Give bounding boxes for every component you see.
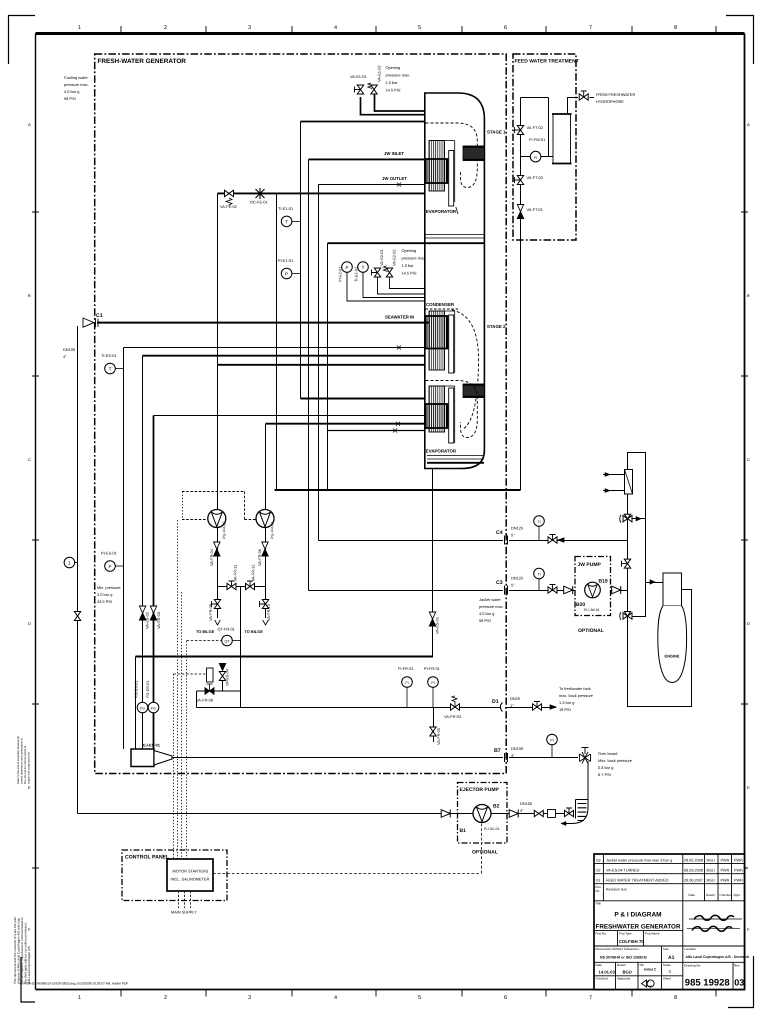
valve VA-FT-02: [515, 126, 524, 135]
svg-text:1: 1: [78, 995, 81, 1001]
wire feed treatment drop: [520, 98, 522, 491]
stage 2 vapour space dashed outline: [426, 381, 478, 438]
instrument TI C4: [534, 516, 545, 540]
svg-text:COLFISH 70: COLFISH 70: [619, 939, 644, 944]
valve VA-FR-11: [227, 581, 236, 590]
svg-text:FG: FG: [140, 707, 145, 711]
relief valve VA-E1-02: [368, 83, 377, 94]
svg-text:CONDENSER: CONDENSER: [426, 302, 455, 307]
svg-text:DN125: DN125: [511, 526, 523, 531]
check valve JW pump outlet: [612, 586, 621, 594]
valve on C1 drop: [74, 612, 80, 621]
wire jw bundle 3: [318, 185, 320, 541]
wire JW inlet: [309, 158, 426, 160]
valve VA-E2-01: [372, 268, 426, 294]
svg-text:Drawing No: Drawing No: [684, 964, 700, 968]
svg-text:P: P: [345, 265, 348, 270]
svg-text:VA-FR-11: VA-FR-11: [233, 565, 238, 582]
wire overboard drop: [587, 762, 589, 800]
svg-text:19 PSI: 19 PSI: [559, 707, 571, 712]
svg-text:PWR: PWR: [721, 858, 730, 862]
svg-text:P: P: [285, 272, 288, 277]
svg-text:C1: C1: [96, 313, 103, 319]
instrument FG-ES-01 b: [148, 702, 159, 713]
svg-text:4": 4": [63, 354, 67, 359]
svg-text:VA-FR-09: VA-FR-09: [208, 604, 213, 621]
bottom zone numbers: [78, 995, 677, 1001]
sea chest strainer: [561, 800, 588, 826]
svg-text:pressure max.: pressure max.: [479, 604, 504, 609]
left zone ticks: [32, 212, 39, 868]
svg-text:FI: FI: [534, 156, 537, 160]
svg-text:PI-ES-01: PI-ES-01: [101, 551, 117, 556]
wire ejector suction drop: [135, 657, 137, 750]
instrument PI-FR-01: [428, 677, 439, 707]
svg-text:Over board: Over board: [598, 751, 617, 756]
svg-text:VA-FR-05: VA-FR-05: [436, 728, 441, 745]
svg-text:FEED WATER TREATMENT: FEED WATER TREATMENT: [515, 59, 579, 65]
stage 2 evaporator tall plate: [449, 388, 454, 443]
svg-text:T: T: [285, 220, 288, 225]
svg-text:VA-FR-04: VA-FR-04: [209, 548, 214, 566]
svg-text:BGU: BGU: [707, 858, 715, 862]
svg-text:Approved: Approved: [617, 976, 631, 980]
wire jw header vertical: [628, 494, 692, 707]
connection C3: [505, 586, 508, 595]
svg-text:VA-ES-03: VA-ES-03: [156, 612, 161, 629]
svg-text:pressure max.: pressure max.: [64, 82, 89, 87]
condenser plate pack: [429, 311, 445, 370]
svg-text:Location: Location: [684, 947, 696, 951]
svg-text:P & I DIAGRAM: P & I DIAGRAM: [614, 912, 661, 919]
wire C1 seawater suction: [97, 322, 429, 324]
svg-text:DN125: DN125: [511, 576, 523, 581]
svg-text:JW INLET: JW INLET: [384, 151, 404, 156]
junction mark d: [393, 429, 397, 433]
svg-text:4.0 bar g: 4.0 bar g: [479, 611, 494, 616]
border right: [744, 34, 746, 990]
svg-text:Sheet: Sheet: [663, 976, 671, 980]
wire brine overboard B7: [172, 757, 578, 759]
arrow hx b: [605, 489, 610, 493]
valve VA-FE-02: [225, 190, 234, 205]
vessel bottom lines: [427, 456, 484, 460]
bilge arrow 2: [263, 620, 269, 625]
ejector pump control dashed: [481, 824, 483, 874]
arrow engine feed: [650, 580, 655, 584]
check valve ejector pump inlet: [441, 810, 450, 818]
svg-text:PU-FR-04: PU-FR-04: [270, 521, 275, 539]
stage 1 evaporator tall plate: [449, 151, 454, 207]
main supply dashed stubs: [179, 891, 191, 908]
wire distillate drain: [433, 708, 435, 743]
svg-text:TI-E1-01: TI-E1-01: [278, 206, 293, 211]
heat exchanger: [625, 470, 633, 495]
left zone letters: [28, 122, 31, 932]
orifice OC-FE-01: [256, 188, 265, 199]
border top: [36, 32, 745, 35]
svg-text:No: No: [595, 889, 599, 893]
dimensions cell: [595, 947, 647, 959]
feed tank: [552, 114, 572, 164]
wire JW outlet: [319, 184, 425, 186]
svg-text:Proj No: Proj No: [595, 931, 606, 935]
svg-text:Date: Date: [595, 963, 602, 967]
stage 1 evaporator frame line: [429, 141, 458, 215]
wire va-es-04 drop: [222, 681, 224, 692]
stage 2 evaporator plate pack: [429, 386, 445, 432]
top zone ticks: [121, 26, 716, 33]
wire condenser line C: [218, 364, 426, 366]
svg-text:STAGE 1: STAGE 1: [487, 130, 506, 135]
stage 2 demister: [463, 384, 484, 398]
svg-text:4: 4: [334, 995, 337, 1001]
valve VA-E1-01: [355, 85, 364, 94]
revision row 01: [596, 878, 743, 882]
svg-text:FG-ES-01: FG-ES-01: [134, 680, 139, 698]
svg-text:14.5 PSI: 14.5 PSI: [386, 88, 401, 93]
wire stage2 jw feed: [301, 398, 426, 400]
wire evaporator feed: [218, 192, 425, 194]
check valve VA-ES-02: [139, 606, 145, 620]
wire bilge drop 1: [217, 587, 219, 619]
svg-text:TO BILGE: TO BILGE: [245, 629, 264, 634]
svg-text:TO BILGE: TO BILGE: [196, 629, 215, 634]
svg-text:01: 01: [596, 878, 600, 882]
wire stage2 feed drop: [276, 193, 278, 490]
svg-text:JW OUTLET: JW OUTLET: [382, 176, 407, 181]
svg-text:pressure max.: pressure max.: [386, 73, 411, 78]
svg-text:Alfa Laval Copenhagen A/S - De: Alfa Laval Copenhagen A/S - Denmark: [686, 955, 750, 959]
svg-text:VA-FT-02: VA-FT-02: [527, 125, 543, 130]
svg-text:Date: Date: [689, 893, 696, 897]
svg-text:VA-E1-01: VA-E1-01: [350, 74, 367, 79]
svg-text:BGU: BGU: [623, 969, 632, 974]
svg-text:1.3 bar g: 1.3 bar g: [559, 700, 574, 705]
optional suction dotted left: [182, 492, 184, 521]
svg-text:Alfa Laval Copenhagen A/S: Alfa Laval Copenhagen A/S: [27, 946, 31, 984]
wire distillate to D1: [197, 707, 501, 709]
check valve VA-ES-03: [150, 606, 156, 620]
svg-text:A: A: [28, 122, 31, 127]
feed water treatment dash-dot boundary: [513, 54, 576, 240]
svg-text:VA-E1-02: VA-E1-02: [377, 65, 382, 82]
ejector pump dash-dot boundary: [458, 783, 508, 844]
svg-text:TI: TI: [537, 520, 540, 524]
instrument 1 circle: [64, 557, 77, 568]
wire pump1 discharge: [217, 528, 219, 587]
svg-text:Scale: Scale: [663, 963, 671, 967]
svg-text:Revision text: Revision text: [606, 888, 627, 892]
svg-text:7: 7: [589, 25, 592, 31]
stage 2 evaporator jw section: [426, 404, 448, 428]
corner mark top-right: [726, 16, 754, 65]
wire pump manifold: [218, 586, 266, 588]
instrument PI-E2-01: [342, 262, 426, 301]
svg-text:1: 1: [68, 561, 71, 566]
wire safety valve line 1: [361, 97, 425, 115]
svg-text:VA-FT-01: VA-FT-01: [527, 207, 543, 212]
svg-text:5": 5": [511, 583, 515, 588]
svg-text:INCL. SALINOMETER: INCL. SALINOMETER: [171, 877, 210, 882]
svg-text:FI-FR-01: FI-FR-01: [398, 666, 414, 671]
svg-text:QT: QT: [225, 640, 231, 644]
svg-text:VA-FR-10: VA-FR-10: [266, 603, 271, 621]
junction mark c: [396, 422, 400, 426]
control signal dotted 4: [173, 674, 175, 859]
check valve VA-FT-01: [517, 205, 523, 219]
condenser vapour dashed arc: [452, 310, 479, 429]
svg-text:6: 6: [504, 995, 507, 1001]
svg-text:P: P: [108, 564, 111, 569]
wire stage2 line D: [266, 423, 426, 425]
svg-text:ENGINE: ENGINE: [665, 654, 680, 659]
svg-text:8.7 PSI: 8.7 PSI: [598, 772, 611, 777]
alfa laval logo: [687, 915, 742, 931]
svg-text:3.0 bar g: 3.0 bar g: [97, 592, 112, 597]
three way valve jw 2: [620, 612, 632, 621]
control signal dotted 2: [181, 592, 183, 859]
wire feed treat loop top: [521, 98, 579, 157]
valve VA-FR-12: [246, 581, 255, 590]
svg-text:PI-E1-01: PI-E1-01: [278, 258, 293, 263]
wire 3way2 branch: [632, 583, 646, 617]
svg-text:TI: TI: [537, 573, 540, 577]
svg-text:1.0 bar: 1.0 bar: [402, 263, 415, 268]
svg-text:Jacket water: Jacket water: [479, 597, 502, 602]
svg-text:=: =: [669, 969, 672, 974]
stage 1 evaporator jw section: [426, 159, 448, 183]
svg-text:E: E: [28, 785, 31, 790]
revision row 03: [596, 858, 743, 862]
svg-text:VA-ES-01: VA-ES-01: [435, 617, 440, 634]
wire hx loop top: [628, 453, 646, 583]
svg-text:5: 5: [418, 25, 421, 31]
instrument PI-ES-01: [105, 561, 123, 572]
optional suction dashed: [182, 492, 256, 520]
svg-text:28.05.2008: 28.05.2008: [684, 858, 703, 862]
check valve C3: [564, 586, 573, 594]
pump PU-JW-01: [585, 582, 601, 598]
relief valve VA-E2-02: [384, 266, 426, 289]
arrow C4: [558, 538, 564, 542]
svg-text:STAGE 2: STAGE 2: [487, 324, 506, 329]
svg-text:TI-E2-01: TI-E2-01: [354, 267, 359, 282]
valve ejector discharge 1: [534, 810, 543, 816]
left margin fine print block 2: [13, 917, 31, 984]
svg-text:Appr.: Appr.: [734, 893, 741, 897]
svg-text:FRESHWATER GENERATOR: FRESHWATER GENERATOR: [595, 924, 680, 931]
svg-text:2: 2: [164, 25, 167, 31]
stage separator lines: [425, 235, 485, 239]
control signal dotted 1: [177, 520, 179, 859]
valve to tank: [533, 702, 542, 711]
svg-text:03: 03: [734, 978, 744, 988]
bottom zone ticks: [121, 990, 716, 997]
svg-text:PWR: PWR: [734, 868, 743, 872]
condenser dashed top: [426, 308, 461, 310]
optional suction pump1 dashed: [182, 519, 207, 521]
stage 1 evaporator plate pack: [429, 141, 445, 192]
control signal dotted 3: [186, 641, 188, 859]
wire safety valve line 2: [375, 94, 425, 111]
svg-text:Opening: Opening: [402, 248, 417, 253]
wire 3way1 branch: [632, 518, 646, 520]
svg-text:58 PSI: 58 PSI: [479, 618, 491, 623]
svg-text:BGU: BGU: [707, 878, 715, 882]
svg-text:Drawn: Drawn: [617, 963, 626, 967]
wire C1 drop line: [77, 326, 79, 814]
svg-text:MAIN SUPPLY: MAIN SUPPLY: [171, 910, 197, 915]
svg-text:OPTIONAL: OPTIONAL: [472, 850, 498, 856]
wire C4 run: [319, 540, 628, 542]
approval glyph: [642, 980, 655, 987]
svg-text:Cooling water: Cooling water: [64, 75, 88, 80]
svg-text:DN100: DN100: [511, 746, 524, 751]
connection C1: [83, 318, 98, 327]
wire condensate line: [154, 415, 426, 417]
svg-text:4": 4": [520, 808, 524, 813]
three way valve jw 1: [620, 514, 632, 523]
left margin fine print block 1: [17, 736, 31, 784]
svg-text:T: T: [109, 367, 112, 372]
svg-text:SB: SB: [639, 963, 643, 967]
svg-text:C4: C4: [496, 530, 503, 536]
svg-text:7: 7: [589, 995, 592, 1001]
connection D1: [500, 703, 502, 712]
overboard valve: [580, 748, 591, 764]
right zone ticks: [741, 212, 748, 868]
wire manifold drop: [240, 587, 242, 708]
svg-text:DN100: DN100: [63, 347, 76, 352]
title block grid: [594, 854, 745, 990]
wire pump1 suction: [217, 193, 219, 509]
svg-text:VA-FR-08: VA-FR-08: [196, 698, 213, 703]
vessel shell: [425, 93, 485, 469]
svg-text:Initial C: Initial C: [644, 967, 657, 971]
svg-text:PU-JW-01: PU-JW-01: [584, 608, 600, 612]
svg-text:Title: Title: [595, 902, 601, 906]
condenser sw section: [426, 316, 448, 349]
instrument QT-FR-01: [222, 635, 241, 646]
svg-text:To freshwater tank: To freshwater tank: [559, 686, 591, 691]
wire pump2 suction: [265, 424, 267, 510]
wire feed water main: [275, 489, 521, 491]
svg-text:0.8 bar g: 0.8 bar g: [598, 765, 613, 770]
valve C3: [548, 585, 557, 594]
svg-text:pressure max.: pressure max.: [402, 256, 427, 261]
wire ti-es branch: [123, 348, 125, 750]
wire pump2 discharge: [265, 528, 267, 587]
instrument PI-E1-01: [281, 268, 300, 279]
wire bilge drop 2: [265, 587, 267, 619]
wire condenser line A: [124, 347, 426, 349]
svg-text:985 19928: 985 19928: [685, 978, 730, 989]
title block outer frame: [594, 854, 745, 990]
svg-text:Checked: Checked: [720, 893, 732, 897]
svg-text:Size: Size: [663, 947, 669, 951]
stage 2 evaporator frame line: [429, 386, 455, 443]
svg-text:EJECTOR PUMP: EJECTOR PUMP: [460, 787, 500, 793]
wire condenser line B: [143, 355, 426, 357]
svg-text:1": 1": [510, 703, 514, 708]
wire brine outlet: [432, 469, 434, 657]
check valve VA-FR-04: [214, 542, 220, 556]
svg-text:14.5 PSI: 14.5 PSI: [402, 271, 417, 276]
svg-text:Proj Type: Proj Type: [619, 931, 632, 935]
instrument TI C3: [534, 568, 545, 590]
svg-text:Checked: Checked: [595, 976, 607, 980]
svg-text:VA-E2-01: VA-E2-01: [379, 249, 384, 266]
svg-text:VA-FR-12: VA-FR-12: [251, 564, 256, 581]
pump PU-FR-04: [256, 510, 274, 528]
svg-text:supply and scope (pos) list: supply and scope (pos) list: [28, 752, 31, 784]
revision header row: [595, 885, 740, 897]
svg-text:3: 3: [248, 25, 251, 31]
svg-text:DN25: DN25: [510, 696, 520, 701]
line strainer: [548, 810, 556, 818]
svg-text:FI-FW-01: FI-FW-01: [529, 137, 545, 142]
wire ejector pump suction: [78, 813, 575, 815]
stage 1 demister: [463, 146, 484, 161]
wire hx inlet b: [603, 490, 625, 492]
svg-text:D1: D1: [492, 699, 499, 705]
corner mark bottom-left: [21, 957, 35, 1002]
svg-text:E: E: [747, 785, 750, 790]
instrument FI-FR-01: [402, 677, 413, 707]
svg-text:8: 8: [674, 995, 677, 1001]
svg-text:A1: A1: [668, 955, 675, 961]
connection B7: [505, 753, 508, 762]
svg-text:VA-ES-04 TURNED: VA-ES-04 TURNED: [606, 868, 640, 872]
svg-text:Max. back pressure: Max. back pressure: [598, 758, 632, 763]
svg-text:VA-E2-02: VA-E2-02: [392, 249, 397, 266]
svg-text:B2: B2: [493, 804, 500, 810]
engine: [658, 573, 687, 683]
svg-text:C:\P1\A-DATA\985\19-19928-0303: C:\P1\A-DATA\985\19-19928-0303.dwg, 6/10…: [20, 982, 128, 986]
svg-text:TI-ES-01: TI-ES-01: [101, 353, 117, 358]
wire distillate sample: [197, 691, 241, 708]
valve VA-ES-04: [219, 664, 225, 681]
svg-text:Drawn: Drawn: [706, 893, 715, 897]
svg-text:C: C: [747, 457, 750, 462]
pump PU-FR-02: [208, 510, 226, 528]
svg-text:B: B: [747, 293, 750, 298]
svg-text:PU-SC-01: PU-SC-01: [484, 827, 500, 831]
svg-text:03: 03: [596, 858, 600, 862]
revision row 02: [596, 868, 743, 872]
proj row labels: [595, 931, 659, 935]
arrow to tank: [550, 705, 556, 709]
instrument PI B7: [547, 734, 558, 757]
svg-text:02: 02: [596, 868, 600, 872]
check valve VA-ES-01 brine outlet: [429, 612, 435, 626]
ejector EJ-ES-01: [131, 749, 172, 767]
instrument TI-E1-01: [281, 216, 300, 227]
svg-text:8: 8: [674, 25, 677, 31]
svg-text:3: 3: [248, 995, 251, 1001]
valve jw bypass: [622, 559, 631, 568]
svg-text:Proj Name: Proj Name: [645, 931, 660, 935]
instrument FG-ES-01 a: [137, 702, 148, 713]
svg-text:08.03.2008: 08.03.2008: [684, 868, 703, 872]
svg-text:FG-ES-01: FG-ES-01: [145, 680, 150, 698]
svg-text:PWR: PWR: [734, 878, 743, 882]
svg-text:VA-FE-02: VA-FE-02: [220, 204, 237, 209]
border left: [35, 34, 37, 990]
svg-text:HYDROPHORE: HYDROPHORE: [596, 99, 624, 104]
wire stage2 line E: [328, 430, 426, 432]
